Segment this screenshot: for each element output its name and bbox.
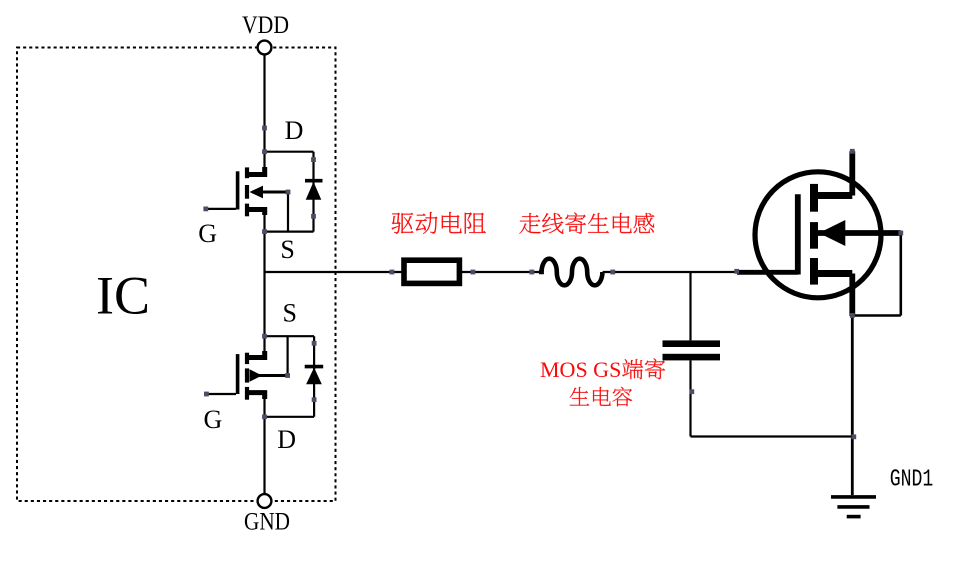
svg-text:S: S	[283, 298, 297, 327]
svg-text:D: D	[285, 116, 304, 145]
svg-text:GND1: GND1	[890, 467, 934, 494]
svg-text:GND: GND	[244, 506, 290, 535]
svg-text:G: G	[198, 219, 217, 248]
svg-text:S: S	[280, 235, 294, 264]
svg-text:G: G	[204, 405, 223, 434]
svg-text:IC: IC	[96, 266, 150, 326]
svg-text:MOS GS: MOS GS	[540, 357, 621, 382]
svg-text:D: D	[277, 425, 296, 454]
svg-text:VDD: VDD	[242, 10, 289, 39]
